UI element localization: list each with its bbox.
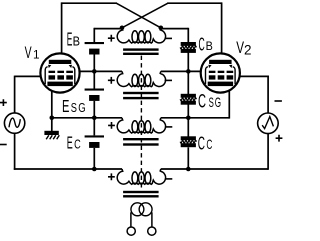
core lines for L4 (grid/output winding)	[123, 191, 159, 193]
svg-text:E: E	[67, 29, 73, 50]
wire top rail right segment	[167, 2, 221, 4]
svg-text:C: C	[206, 137, 212, 152]
wire L3 right to V2 cathode rail	[161, 117, 230, 119]
wire V1 cathode lead	[51, 86, 53, 118]
node junction at 188.3,117.8	[186, 116, 191, 121]
polarity label L1 left +	[108, 35, 115, 42]
polarity label L1 right -	[165, 37, 172, 39]
polarity label L3 right -	[165, 126, 172, 128]
inductor winding L1 (plate tank winding)	[117, 28, 165, 43]
svg-text:E: E	[67, 133, 73, 153]
wire CB to CSG	[187, 53, 189, 95]
inductor winding L3 (cathode winding)	[117, 118, 165, 133]
tube V2 envelope	[201, 53, 240, 92]
node junction at 122,27.8	[120, 26, 125, 31]
polarity label left source +	[0, 99, 7, 106]
AC source left	[4, 113, 24, 133]
wire bottom rail left	[14, 168, 122, 170]
wire cathode to ESG junction	[52, 117, 122, 119]
polarity label right source -	[275, 100, 282, 102]
capacitor CB	[181, 42, 196, 46]
wire V2 control grid to right source	[240, 75, 269, 77]
core lines for L3 (cathode winding)	[123, 138, 159, 140]
svg-text:S: S	[209, 94, 214, 110]
polarity label L3 left +	[108, 122, 115, 129]
wire EB- to ESG+	[93, 55, 95, 89]
node junction at 51.8,117.8	[50, 116, 55, 121]
wire left source upper lead	[14, 76, 16, 113]
wire EB top lead	[93, 28, 95, 42]
svg-text:G: G	[78, 100, 85, 115]
wire EC- to bottom rail	[93, 148, 95, 169]
battery ESG	[85, 89, 104, 91]
wire EB to L1 left	[94, 28, 122, 30]
node junction at 94.3,71.4	[92, 69, 97, 74]
svg-text:G: G	[215, 94, 221, 110]
capacitor CC	[181, 136, 196, 140]
wire V2 cathode lead	[228, 86, 230, 119]
svg-text:V: V	[25, 44, 32, 62]
wire crossover diagonal from right rail to L1 left terminal	[122, 3, 168, 28]
wire CSG to CC	[187, 104, 189, 137]
svg-text:C: C	[198, 91, 206, 113]
capacitor CSG	[181, 94, 196, 98]
wire bottom rail right	[161, 168, 268, 170]
wire right source upper lead	[267, 76, 269, 114]
wire V1 plate lead	[61, 2, 63, 60]
node junction at 94.3,169.0	[92, 167, 97, 172]
svg-text:B: B	[206, 39, 213, 53]
wire left source to V1 control grid	[15, 75, 48, 77]
wire L1 right to CB	[161, 28, 189, 30]
wire ESG- down	[93, 101, 95, 135]
node junction at 188.3,169.0	[186, 167, 191, 172]
core lines for L2 (screen winding)	[123, 92, 159, 94]
svg-text:B: B	[73, 34, 80, 48]
wire crossover diagonal from left rail to L1 right terminal	[116, 3, 161, 28]
wire right source lower lead	[267, 134, 269, 170]
common core dashed line	[140, 56, 142, 191]
polarity label right source +	[276, 135, 283, 142]
polarity label L4 right -	[165, 178, 172, 180]
inductor secondary pickup loop	[131, 203, 144, 216]
wire V1 screen grid to L2 left terminal	[73, 70, 122, 72]
wire top rail left segment	[62, 2, 117, 4]
svg-text:1: 1	[33, 48, 40, 62]
wire V2 plate lead	[221, 2, 223, 60]
svg-text:E: E	[62, 96, 69, 116]
polarity label L2 left +	[108, 77, 115, 84]
svg-text:V: V	[236, 39, 244, 57]
node junction at 188.3,71.4	[186, 69, 191, 74]
tube V2 electrodes	[209, 60, 232, 64]
wire CB top lead	[187, 28, 189, 43]
wire CC to bottom rail	[187, 147, 189, 169]
output terminal right	[148, 227, 156, 235]
svg-text:S: S	[71, 100, 77, 115]
svg-text:C: C	[199, 35, 205, 56]
node junction at 94.3,117.8	[92, 116, 97, 121]
wire left source lower lead	[14, 133, 16, 170]
tube V1 envelope	[40, 53, 79, 92]
tube V1 electrodes	[49, 60, 72, 64]
polarity label left source -	[0, 144, 7, 146]
svg-text:C: C	[74, 137, 81, 152]
wire secondary left lead	[130, 212, 132, 227]
node junction at 160.8,27.8	[159, 26, 164, 31]
wire secondary right lead	[151, 212, 153, 227]
ground	[44, 131, 58, 135]
core lines for L1 (plate tank winding)	[123, 48, 159, 50]
polarity label L2 right -	[165, 79, 172, 81]
output terminal left	[127, 227, 135, 235]
svg-text:C: C	[198, 133, 205, 154]
battery EB	[85, 42, 104, 44]
inductor winding L2 (screen winding)	[117, 71, 165, 86]
inductor winding L4 (grid/output winding)	[117, 169, 165, 184]
AC source right	[258, 113, 279, 134]
polarity label L4 left +	[108, 173, 115, 180]
wire L2 right to V2 screen grid	[161, 70, 208, 72]
wire ground stub	[51, 118, 53, 131]
battery EC	[85, 135, 104, 137]
svg-text:2: 2	[244, 43, 252, 58]
